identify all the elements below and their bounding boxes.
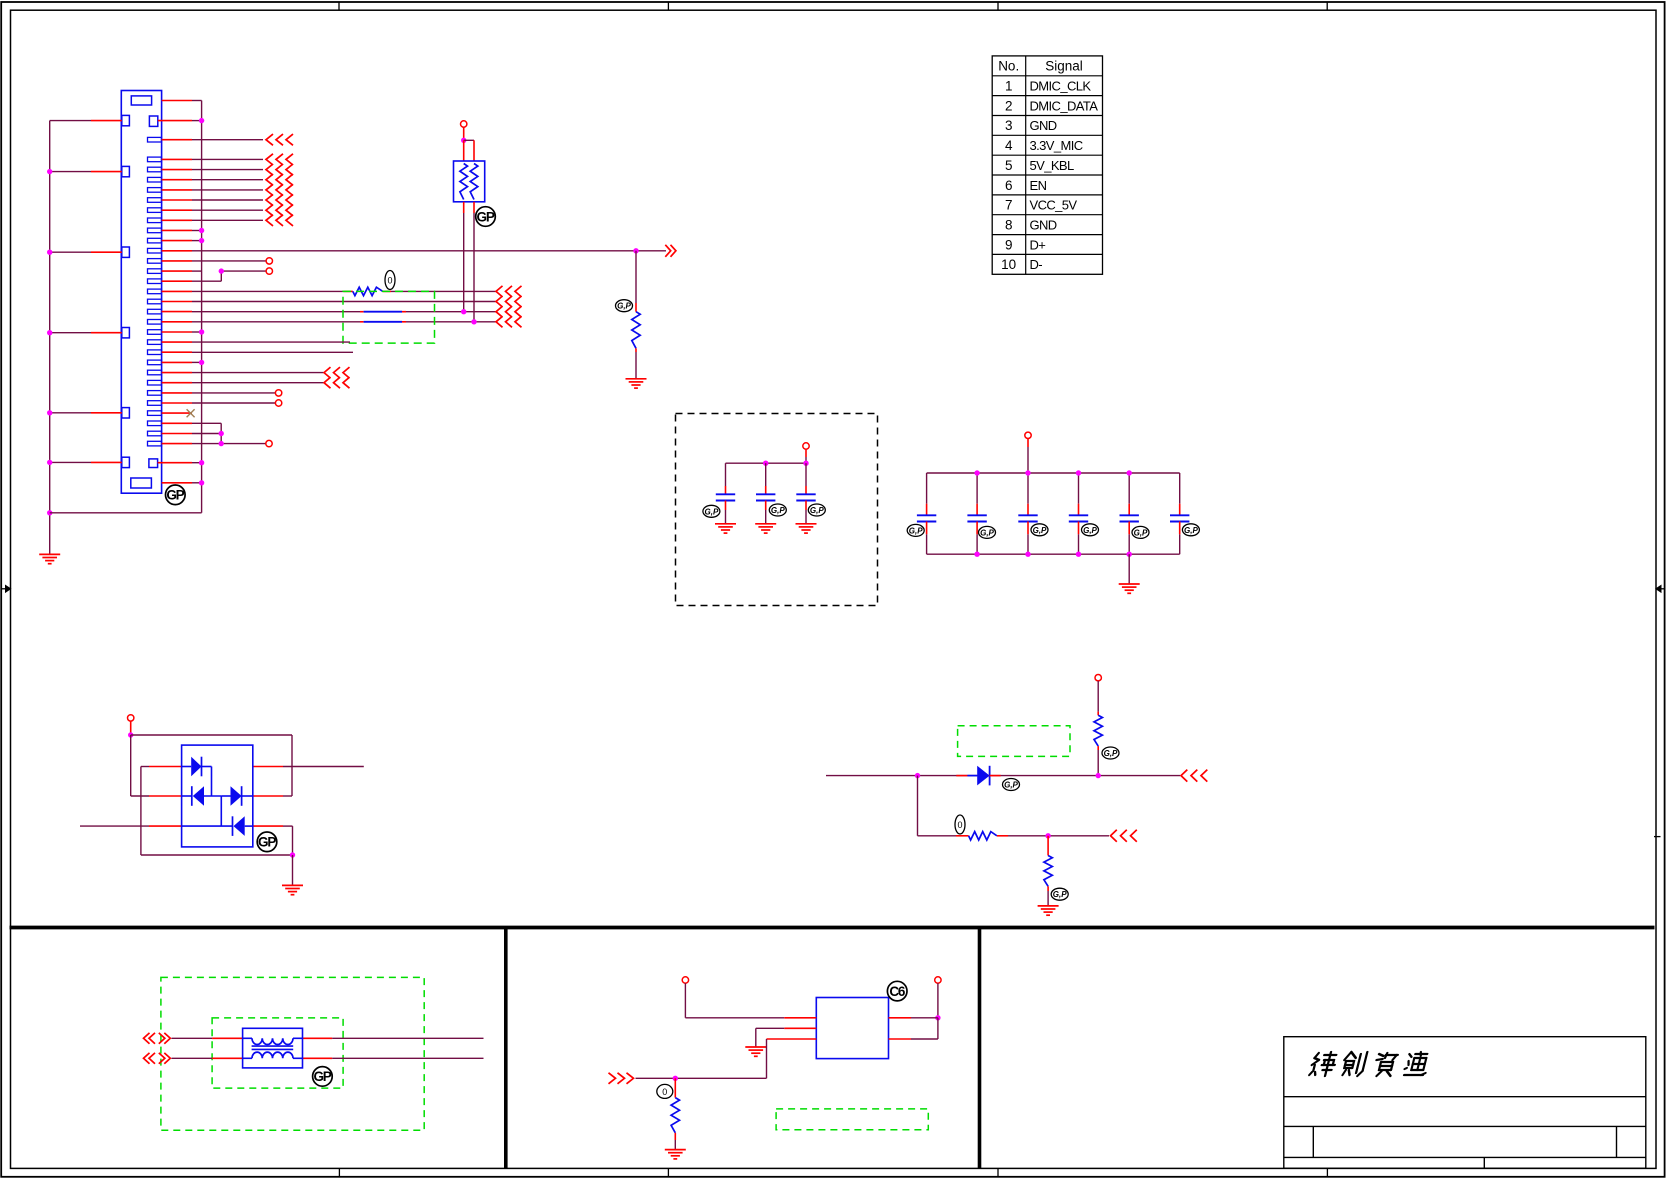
svg-text:9: 9: [1005, 237, 1013, 252]
svg-text:D-: D-: [1030, 257, 1043, 272]
svg-text:G,P: G,P: [1033, 526, 1047, 535]
svg-text:2: 2: [1005, 98, 1013, 113]
svg-text:GP: GP: [313, 1069, 331, 1084]
svg-text:10: 10: [1001, 257, 1016, 272]
svg-text:G,P: G,P: [909, 526, 923, 535]
svg-text:Signal: Signal: [1045, 59, 1083, 74]
svg-text:GP: GP: [477, 209, 495, 224]
svg-text:8: 8: [1005, 218, 1013, 233]
svg-text:G,P: G,P: [705, 507, 719, 516]
svg-text:1: 1: [1005, 79, 1013, 94]
svg-text:EN: EN: [1030, 178, 1047, 193]
svg-text:D+: D+: [1030, 237, 1046, 252]
svg-text:G,P: G,P: [1004, 781, 1018, 790]
svg-text:0: 0: [957, 820, 962, 830]
svg-text:DMIC_DATA: DMIC_DATA: [1030, 98, 1099, 113]
svg-text:G,P: G,P: [1083, 526, 1097, 535]
svg-text:5: 5: [1005, 158, 1013, 173]
svg-text:5V_KBL: 5V_KBL: [1030, 158, 1074, 173]
svg-text:G,P: G,P: [980, 528, 994, 537]
svg-text:3: 3: [1005, 118, 1013, 133]
svg-text:G,P: G,P: [810, 506, 824, 515]
svg-text:3.3V_MIC: 3.3V_MIC: [1030, 138, 1083, 153]
svg-text:0: 0: [662, 1087, 667, 1097]
svg-text:GP: GP: [258, 835, 276, 850]
svg-text:7: 7: [1005, 198, 1013, 213]
svg-text:G,P: G,P: [617, 302, 631, 311]
svg-text:G,P: G,P: [1053, 890, 1067, 899]
svg-text:G,P: G,P: [1104, 749, 1118, 758]
svg-text:GND: GND: [1030, 118, 1057, 133]
svg-text:0: 0: [387, 276, 392, 286]
svg-text:4: 4: [1005, 138, 1013, 153]
svg-text:GP: GP: [166, 488, 184, 503]
svg-text:6: 6: [1005, 178, 1013, 193]
svg-text:No.: No.: [998, 59, 1019, 74]
svg-text:G,P: G,P: [1134, 528, 1148, 537]
svg-text:GND: GND: [1030, 218, 1057, 233]
svg-text:G,P: G,P: [771, 506, 785, 515]
svg-text:VCC_5V: VCC_5V: [1030, 198, 1078, 213]
svg-text:DMIC_CLK: DMIC_CLK: [1030, 79, 1092, 94]
svg-text:G,P: G,P: [1184, 526, 1198, 535]
svg-text:C6: C6: [889, 984, 906, 999]
